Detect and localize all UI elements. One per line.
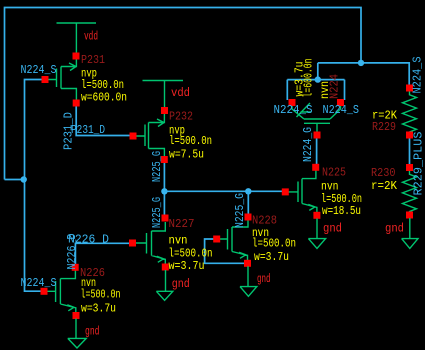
wire N225_G horizontal	[164, 190, 285, 192]
svg-text:w=3.7u: w=3.7u	[254, 250, 289, 264]
svg-text:w=3.7u: w=3.7u	[81, 302, 116, 316]
svg-text:w=3.7u: w=3.7u	[169, 259, 205, 273]
svg-text:w=7.5u: w=7.5u	[169, 148, 204, 162]
svg-text:P231_D: P231_D	[71, 123, 105, 137]
svg-text:l=500.0n: l=500.0n	[252, 237, 296, 251]
vdd supply P231	[57, 23, 97, 53]
svg-text:vdd: vdd	[84, 30, 98, 44]
svg-text:R230: R230	[371, 166, 396, 180]
ground N226	[68, 319, 86, 349]
node N225_G junction	[161, 188, 167, 194]
svg-text:r=2K: r=2K	[371, 179, 398, 193]
node N224_S junction left	[21, 176, 27, 182]
wire N228 gate to source	[205, 239, 248, 263]
svg-text:N224_S: N224_S	[21, 63, 57, 77]
ground R230	[402, 218, 418, 248]
ground N225	[308, 219, 325, 249]
transistor N225	[282, 164, 321, 219]
wire N225_G down to N228 drain	[247, 191, 249, 214]
node junction at N224 top	[315, 76, 321, 82]
svg-text:w=600.0n: w=600.0n	[81, 90, 127, 104]
ground N228	[240, 266, 257, 296]
svg-text:R229: R229	[372, 120, 396, 134]
svg-text:gnd: gnd	[85, 324, 100, 338]
node junction top right	[358, 60, 364, 66]
svg-text:nvn: nvn	[169, 234, 188, 248]
node N225_G junction right	[245, 188, 251, 194]
svg-text:vdd: vdd	[171, 86, 190, 100]
wire jog to junction	[5, 179, 24, 181]
svg-text:gnd: gnd	[323, 221, 342, 235]
svg-text:N224_S: N224_S	[274, 103, 313, 117]
wire N224_S left vertical P231 gate to N226 gate	[25, 80, 46, 292]
wire P231_D drain to P232 gate	[76, 105, 133, 136]
svg-text:N224_S: N224_S	[411, 57, 425, 94]
svg-text:l=500.0n: l=500.0n	[81, 288, 121, 302]
svg-text:N225_G: N225_G	[150, 151, 164, 182]
svg-text:l=500.0n: l=500.0n	[169, 134, 212, 148]
svg-text:gnd: gnd	[172, 277, 190, 291]
wire N224_S top frame loop	[5, 8, 362, 180]
transistor P232	[130, 107, 169, 163]
wire R229_PLUS between resistors	[409, 138, 411, 165]
svg-text:N224_S: N224_S	[21, 276, 57, 290]
svg-text:N225_G: N225_G	[150, 197, 164, 228]
wire N224 right drop	[344, 80, 346, 100]
svg-text:R229_PLUS: R229_PLUS	[412, 132, 425, 196]
vdd supply P232	[143, 81, 184, 108]
svg-text:N225_G: N225_G	[233, 193, 247, 228]
svg-text:P231_D: P231_D	[62, 112, 76, 150]
svg-text:N224_S: N224_S	[323, 103, 360, 117]
svg-text:P232: P232	[169, 110, 193, 124]
svg-text:w=18.5u: w=18.5u	[322, 204, 361, 218]
transistor N224 (rotated)	[289, 99, 345, 139]
transistor N228	[213, 214, 251, 267]
wire top right vertical to N224	[317, 63, 319, 80]
svg-text:w=3.7u: w=3.7u	[293, 62, 307, 97]
resistor R229	[403, 85, 417, 139]
svg-text:nvn: nvn	[318, 81, 332, 99]
svg-text:N227: N227	[169, 217, 195, 231]
wire N224 top bar	[287, 79, 344, 81]
wire N225_G P232 drain down	[163, 161, 165, 215]
svg-text:P231: P231	[81, 53, 105, 67]
wire top right horizontal to R229	[318, 63, 409, 85]
transistor N226	[41, 264, 80, 319]
wire N224 left drop	[286, 80, 288, 100]
wire N224_G	[316, 138, 318, 164]
svg-text:N224_G: N224_G	[301, 127, 315, 162]
svg-text:N226_D: N226_D	[65, 234, 79, 270]
wire N226_D	[75, 243, 132, 264]
svg-text:gnd: gnd	[257, 272, 271, 286]
transistor N227	[129, 215, 169, 271]
resistor R230	[403, 164, 417, 219]
transistor P231	[42, 53, 80, 107]
svg-text:N225: N225	[322, 165, 346, 179]
svg-text:gnd: gnd	[385, 221, 404, 235]
ground N227	[156, 270, 172, 300]
